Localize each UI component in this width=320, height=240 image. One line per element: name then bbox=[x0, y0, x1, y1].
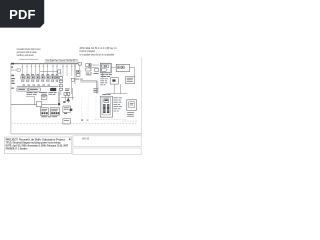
breaker stack left bbox=[103, 103, 106, 106]
dark breaker bar bbox=[50, 88, 56, 91]
title block box bbox=[4, 137, 71, 154]
bus junction box bbox=[78, 63, 81, 65]
generator panel outer bbox=[100, 96, 112, 117]
aux bus bbox=[40, 71, 58, 73]
drawing left border bbox=[10, 63, 12, 134]
panel feed dashes bbox=[81, 97, 83, 120]
metering tap line bbox=[11, 69, 20, 71]
disconnect mark bbox=[70, 109, 73, 111]
feeder tags bbox=[22, 84, 25, 87]
bus duct right bbox=[28, 88, 40, 91]
station transformer B bbox=[116, 64, 129, 71]
generator panel inner bbox=[102, 98, 111, 115]
tie drop bbox=[120, 84, 122, 94]
ct foot mark bbox=[63, 101, 65, 103]
stacked control boxes bbox=[77, 70, 81, 73]
switchgear lineup A bbox=[40, 108, 48, 115]
relay box bbox=[110, 78, 118, 85]
transfer wire bbox=[130, 67, 135, 69]
svg-text:PDF: PDF bbox=[9, 7, 36, 22]
ground grid dashed boundary bbox=[11, 122, 136, 124]
ats block bbox=[104, 99, 109, 103]
approval table row 1 bbox=[73, 136, 141, 147]
page number bbox=[69, 139, 70, 141]
mcc box outer bbox=[127, 100, 137, 111]
bus source tick bbox=[11, 63, 14, 65]
panel schedule note bbox=[113, 96, 118, 99]
riser mid bbox=[59, 92, 61, 107]
drawing right border bbox=[140, 58, 142, 136]
left margin n mark bbox=[11, 67, 13, 68]
east tie line bbox=[88, 67, 98, 69]
east stub box bbox=[95, 69, 99, 72]
pole riser drop bbox=[70, 82, 72, 94]
buried cable dashes bbox=[122, 120, 138, 122]
xfmr A drop bbox=[102, 73, 104, 78]
east stub line bbox=[91, 64, 99, 66]
distribution bus line bbox=[17, 85, 58, 87]
transformer row bbox=[21, 76, 25, 79]
drawing bottom border bbox=[11, 133, 141, 135]
svg-text:B42 6/5: B42 6/5 bbox=[82, 137, 89, 140]
pt box bbox=[41, 95, 47, 99]
svg-text:machinery and panels: machinery and panels bbox=[17, 53, 34, 57]
svg-text:DRAWER: P. J. Sanders: DRAWER: P. J. Sanders bbox=[6, 147, 28, 151]
switch column marks bbox=[66, 92, 69, 94]
switchgear caption bbox=[41, 115, 47, 118]
svg-text:( switchyard and substation ar: ( switchyard and substation area ) bbox=[19, 58, 39, 61]
cabinet tap marks bbox=[64, 113, 67, 114]
relay drop bbox=[113, 84, 115, 94]
south feeder line bbox=[11, 104, 58, 106]
station service riser bbox=[74, 64, 76, 84]
akron tap line bbox=[26, 96, 35, 98]
wire note mid bbox=[93, 87, 98, 90]
svg-text:Your State Farm Ground Grid Ma: Your State Farm Ground Grid Max 80 ft bbox=[46, 60, 77, 63]
ct pair boxes bbox=[64, 92, 67, 95]
dashed conduit run bbox=[95, 119, 126, 121]
ground grid header bar bbox=[45, 59, 78, 62]
breaker stack right bbox=[107, 103, 110, 106]
transformer rating note bbox=[101, 73, 105, 76]
PDF badge bbox=[0, 0, 44, 28]
pole riser boxes bbox=[71, 78, 74, 81]
transformer link bbox=[111, 67, 116, 69]
tie wire lower bbox=[106, 93, 127, 95]
feeder drops bbox=[21, 64, 23, 76]
akron note block bbox=[27, 91, 33, 94]
left margin tags bbox=[11, 78, 15, 79]
transformer note bbox=[100, 77, 104, 80]
svg-text:is in speaker about bunch is n: is in speaker about bunch is not possibl… bbox=[80, 52, 115, 56]
ct cross line bbox=[61, 96, 74, 98]
riser junction mark bbox=[58, 103, 60, 105]
feeder long right bbox=[80, 80, 97, 82]
pump starter bbox=[86, 68, 91, 71]
right riser bbox=[72, 88, 74, 100]
station transformer A bbox=[100, 63, 111, 73]
south feeder box bbox=[36, 102, 41, 107]
bus duct left bbox=[17, 88, 27, 91]
akron tap riser bbox=[34, 97, 36, 105]
east stub tag bbox=[94, 72, 99, 75]
approval table row 2 bbox=[73, 148, 141, 155]
switch column bbox=[60, 72, 62, 95]
mcc caption bbox=[127, 111, 134, 114]
aux cabinet lower bbox=[63, 119, 71, 124]
switchgear lineup B bbox=[50, 108, 59, 115]
station service drop bbox=[79, 64, 81, 71]
left margin mark bbox=[11, 75, 14, 77]
generator panel label bbox=[102, 93, 106, 96]
ground rods bbox=[81, 119, 83, 120]
feeder risers bbox=[96, 81, 98, 94]
main bus bbox=[11, 63, 78, 65]
pump contactor bbox=[86, 63, 91, 66]
junction box bbox=[58, 70, 61, 73]
aux cabinet bbox=[63, 106, 71, 112]
ct risers bbox=[64, 95, 66, 103]
pt note bbox=[49, 91, 53, 94]
delta symbol bbox=[66, 98, 70, 101]
mcc box inner bbox=[129, 102, 135, 108]
fuse labels bbox=[65, 88, 70, 91]
pump note bbox=[86, 72, 89, 75]
ats cabinet bbox=[126, 77, 135, 84]
meter box bbox=[17, 69, 20, 71]
transformer labels row bbox=[21, 73, 24, 76]
